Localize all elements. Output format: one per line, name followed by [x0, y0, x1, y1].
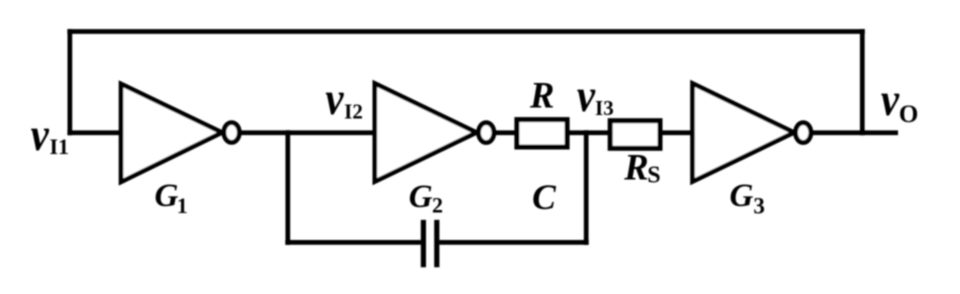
svg-text:R: R	[623, 146, 648, 187]
svg-text:v: v	[31, 108, 50, 160]
svg-text:R: R	[529, 74, 554, 115]
inverter G3 triangle	[693, 83, 795, 181]
svg-text:1: 1	[177, 193, 188, 218]
capacitor C plate left	[421, 220, 426, 267]
gate label G2	[409, 179, 443, 217]
inverter G3 bubble	[796, 123, 811, 143]
wire RS to G3 input	[660, 130, 695, 135]
wire input stub to G1	[67, 130, 123, 135]
svg-text:G: G	[730, 178, 754, 214]
gate label G1	[155, 178, 188, 218]
svg-text:S: S	[647, 163, 660, 189]
wire top feedback	[67, 29, 864, 34]
inverter G2 triangle	[375, 83, 477, 181]
resistor RS box	[610, 121, 660, 149]
svg-text:G: G	[409, 179, 433, 215]
svg-text:I1: I1	[49, 134, 69, 159]
wire G3 output vO	[812, 130, 898, 135]
node label vO	[881, 73, 918, 128]
svg-text:v: v	[325, 73, 344, 125]
wire right feedback vertical	[860, 29, 865, 135]
wire G1 output to G2 input	[240, 130, 377, 135]
inverter G1 bubble	[224, 123, 239, 143]
wire bottom right from capacitor	[439, 240, 588, 245]
inverter G2 bubble	[479, 123, 494, 143]
svg-text:2: 2	[432, 192, 443, 217]
svg-text:v: v	[881, 73, 900, 125]
svg-text:v: v	[577, 69, 596, 121]
wire left feedback vertical	[67, 29, 72, 135]
resistor R box	[517, 120, 567, 147]
svg-text:I2: I2	[344, 99, 363, 123]
inverter G1 triangle	[121, 84, 222, 182]
svg-text:O: O	[899, 101, 918, 128]
wire bottom left to capacitor	[285, 240, 421, 245]
wire R to RS through node vI3	[567, 130, 611, 135]
value label RS	[623, 146, 660, 188]
gate label G3	[730, 178, 765, 218]
node label vI3	[577, 69, 614, 121]
capacitor C plate right	[434, 220, 439, 267]
svg-text:3: 3	[753, 193, 765, 218]
svg-text:G: G	[155, 178, 179, 214]
wire G2 output to R	[494, 130, 517, 135]
svg-text:C: C	[532, 177, 556, 217]
svg-text:I3: I3	[595, 96, 614, 120]
node label vI1	[31, 108, 69, 160]
node label vI2	[325, 73, 362, 125]
wire branch up at node vI3	[584, 130, 589, 245]
wire branch down at node vI2	[285, 130, 290, 245]
